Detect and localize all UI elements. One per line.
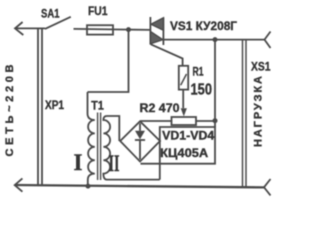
transformer T1 core <box>97 113 99 181</box>
wire SA1 to VS1 left rail <box>74 29 151 30</box>
triac VS1 right bar <box>162 18 164 46</box>
connector XS1 pin 2 (chevron) <box>264 179 271 195</box>
connector XP1 pin 1 (arrow) <box>15 22 23 35</box>
wire bottom rail <box>15 185 264 187</box>
wire load conductor a <box>242 40 244 188</box>
switch SA1 <box>45 17 71 29</box>
diode bridge VD1-VD4 diamond <box>120 121 160 161</box>
wire node A to T1 primary <box>88 30 129 92</box>
svg-text:II: II <box>109 151 120 176</box>
label box bottom edge / bridge minus wire <box>141 163 216 165</box>
svg-text:XS1: XS1 <box>251 60 271 74</box>
node A junction dot <box>126 27 131 32</box>
wire XP1 conductor a <box>37 29 39 185</box>
svg-text:I: I <box>74 150 83 175</box>
bridge diode symbol stem lower <box>139 140 141 160</box>
wire box corner down <box>159 164 161 180</box>
wire R2 to node C <box>196 120 215 122</box>
wire R1 to R2 wiper <box>182 90 184 109</box>
wire VS1 anode2 rail to XS1 top <box>163 39 264 41</box>
connector XS1 pin 1 (chevron) <box>265 32 271 49</box>
wire gate of VS1 to R1 <box>151 44 183 66</box>
connector XP1 pin 2 (arrow) <box>15 178 23 191</box>
label box VD1-VD4 <box>160 127 215 164</box>
wire mains top lead <box>15 27 45 29</box>
triac VS1 left bar <box>149 17 151 45</box>
transformer T1 winding II <box>103 116 159 180</box>
triac VS1 upper triangle <box>151 18 163 30</box>
svg-text:T1: T1 <box>91 98 104 112</box>
node D junction dot <box>86 184 91 189</box>
wire VD bridge plus to R2 <box>141 120 172 122</box>
resistor R1 <box>179 66 188 90</box>
svg-text:R1: R1 <box>193 67 204 79</box>
fuse FU1 <box>87 25 113 34</box>
svg-text:VS1 КУ208Г: VS1 КУ208Г <box>170 19 237 33</box>
bridge diode symbol cathode bar <box>135 139 145 141</box>
wire load conductor b <box>245 40 247 188</box>
resistor R1 slash <box>181 74 187 85</box>
node B junction dot <box>213 37 218 42</box>
wire node B to node C riser <box>214 40 216 128</box>
potentiometer R2 body <box>172 117 197 125</box>
svg-text:SA1: SA1 <box>41 7 60 21</box>
node C junction dot <box>213 118 218 123</box>
bridge diode symbol stem <box>139 123 141 131</box>
triac VS1 lower triangle <box>150 31 162 43</box>
R2 wiper arrowhead <box>181 108 187 116</box>
bridge diode symbol triangle <box>135 131 145 140</box>
svg-text:R2 470: R2 470 <box>140 101 180 115</box>
svg-text:FU1: FU1 <box>88 4 108 18</box>
svg-text:VD1-VD4: VD1-VD4 <box>162 131 215 143</box>
svg-text:150: 150 <box>191 81 213 98</box>
svg-text:КЦ405А: КЦ405А <box>160 146 208 160</box>
svg-text:СЕТЬ~220В: СЕТЬ~220В <box>4 64 16 156</box>
transformer T1 winding I <box>88 92 95 186</box>
wire XP1 conductor b <box>41 29 43 185</box>
svg-text:ХР1: ХР1 <box>45 100 65 112</box>
